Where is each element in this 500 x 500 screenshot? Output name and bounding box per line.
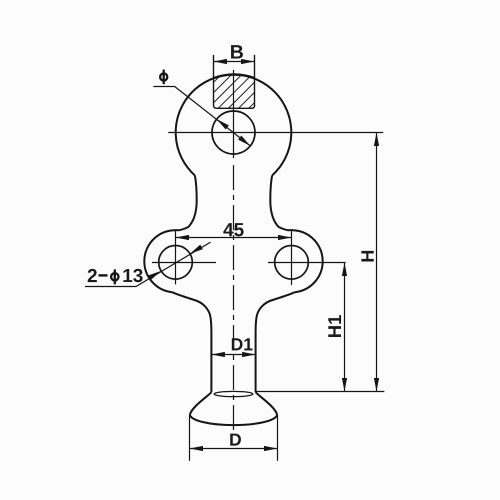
label B [231, 45, 243, 58]
dimension line H1 [344, 263, 346, 392]
left hole 13 [159, 245, 193, 279]
hatched section area [214, 74, 255, 108]
body neck lower-right + stem right [256, 292, 295, 392]
label phi [160, 70, 167, 85]
right hole vertical centerline / 45 extension [291, 230, 293, 285]
dimension line 45 [176, 237, 292, 239]
section top arc (cut outline, heavier) [214, 74, 255, 78]
right hole 13 [275, 245, 309, 279]
section side / B extension right [254, 55, 256, 106]
D extension left [189, 415, 191, 461]
phi arrow lower-right [238, 136, 250, 146]
2-phi13 arrow upper-right (points inward) [190, 245, 203, 254]
label H1 [328, 315, 341, 337]
dimension line D [190, 448, 278, 450]
phi leader line [153, 87, 250, 146]
body neck upper-left [179, 176, 197, 231]
body neck upper-right [270, 176, 288, 231]
bottom extension line (seat plane) [256, 391, 385, 393]
dimension line H [376, 133, 378, 392]
eye horizontal centerline / H top extension [168, 132, 383, 134]
label D [230, 434, 241, 446]
label H [361, 251, 373, 262]
left hole vertical centerline / 45 extension [175, 230, 177, 284]
vertical centerline middle [233, 165, 235, 430]
bell dome right [256, 392, 278, 414]
section side / B extension left [213, 55, 215, 106]
dimension line B [214, 61, 255, 63]
label 45 [223, 223, 243, 236]
left hole horizontal centerline [152, 262, 216, 264]
label 2-phi13 [88, 269, 97, 282]
body neck lower-left + stem left [172, 292, 211, 392]
dimension line D1 [211, 354, 255, 356]
seat ellipse [214, 391, 253, 396]
label D1 [232, 338, 253, 350]
bell bottom arc [190, 415, 277, 426]
section bottom line [214, 105, 255, 108]
left lobe arc [144, 230, 179, 292]
right hole horizontal centerline / H1 top extension [268, 262, 346, 264]
eye outer arc [176, 75, 292, 176]
right lobe arc [288, 230, 323, 292]
eye hole circle [212, 111, 255, 154]
2-phi13 leader [85, 242, 211, 286]
D extension right [277, 415, 279, 461]
vertical centerline top (through eye and hatch) [233, 70, 235, 158]
bell dome left [190, 392, 212, 414]
phi arrow upper-left [217, 119, 229, 129]
2-phi13 arrow lower-left (points inward) [148, 271, 161, 280]
